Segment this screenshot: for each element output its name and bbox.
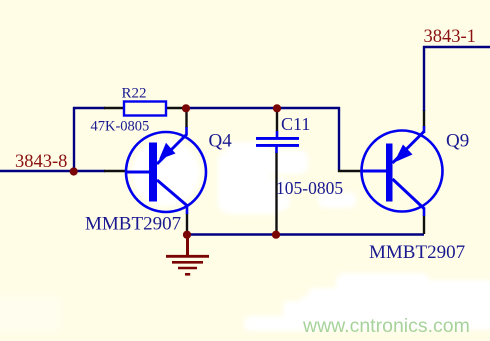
resistor R22 body (124, 102, 166, 116)
pin C11 bottom (275, 152, 277, 235)
faint smudge bottom left (0, 295, 62, 333)
ground (166, 234, 209, 274)
wire 3843-8 horizontal (0, 170, 105, 172)
transistor Q9 (362, 131, 443, 212)
pin R22 left (104, 107, 125, 109)
svg-text:Q9: Q9 (446, 131, 469, 152)
erased-watermark white smudge inside Q4 (132, 140, 200, 206)
pin Q9 base (338, 170, 362, 172)
pin Q4 emitter (top) (185, 107, 187, 128)
wire vertical corner down to Q9 base level (338, 107, 340, 172)
wire vertical up from node to R22 (73, 107, 75, 172)
svg-text:47K-0805: 47K-0805 (91, 118, 150, 134)
pin R22 right (165, 107, 187, 109)
svg-text:105-0805: 105-0805 (276, 178, 343, 198)
node junction dot R22 right / Q4 emitter (182, 104, 190, 112)
node junction dot C11 bottom / bottom rail (272, 231, 280, 239)
svg-text:3843-1: 3843-1 (424, 27, 476, 47)
pin C11 top (276, 107, 278, 132)
pin Q4 collector (bottom) (186, 213, 188, 235)
node junction dot Q4 collector / bottom rail (183, 231, 191, 239)
erased-watermark white cloud bottom right (244, 273, 490, 331)
wire 3843-1 horizontal (423, 46, 490, 48)
wire bottom rail (186, 233, 424, 235)
svg-text:www.cntronics.com: www.cntronics.com (302, 315, 470, 337)
wire to R22 left (73, 107, 105, 109)
wire top rail R22 to corner (186, 107, 340, 109)
node junction dot 3843-8 (70, 167, 78, 175)
svg-text:MMBT2907: MMBT2907 (369, 242, 465, 263)
node junction dot C11 top (273, 104, 281, 112)
svg-text:C11: C11 (281, 114, 310, 134)
pin Q4 base (104, 170, 127, 172)
pin Q9 collector (bottom) (423, 215, 425, 234)
svg-text:3843-8: 3843-8 (15, 152, 67, 172)
svg-text:R22: R22 (122, 85, 147, 101)
wire 3843-1 vertical (423, 46, 425, 111)
capacitor C11 plates (256, 137, 299, 140)
svg-text:Q4: Q4 (209, 131, 233, 152)
pin Q9 emitter (top) (423, 110, 425, 127)
erased-watermark white smudge left of Q9 (318, 192, 356, 208)
erased-watermark white smudge right of Q4 (WW shape) (218, 142, 308, 214)
transistor Q4 (126, 132, 206, 212)
svg-text:MMBT2907: MMBT2907 (85, 214, 181, 235)
